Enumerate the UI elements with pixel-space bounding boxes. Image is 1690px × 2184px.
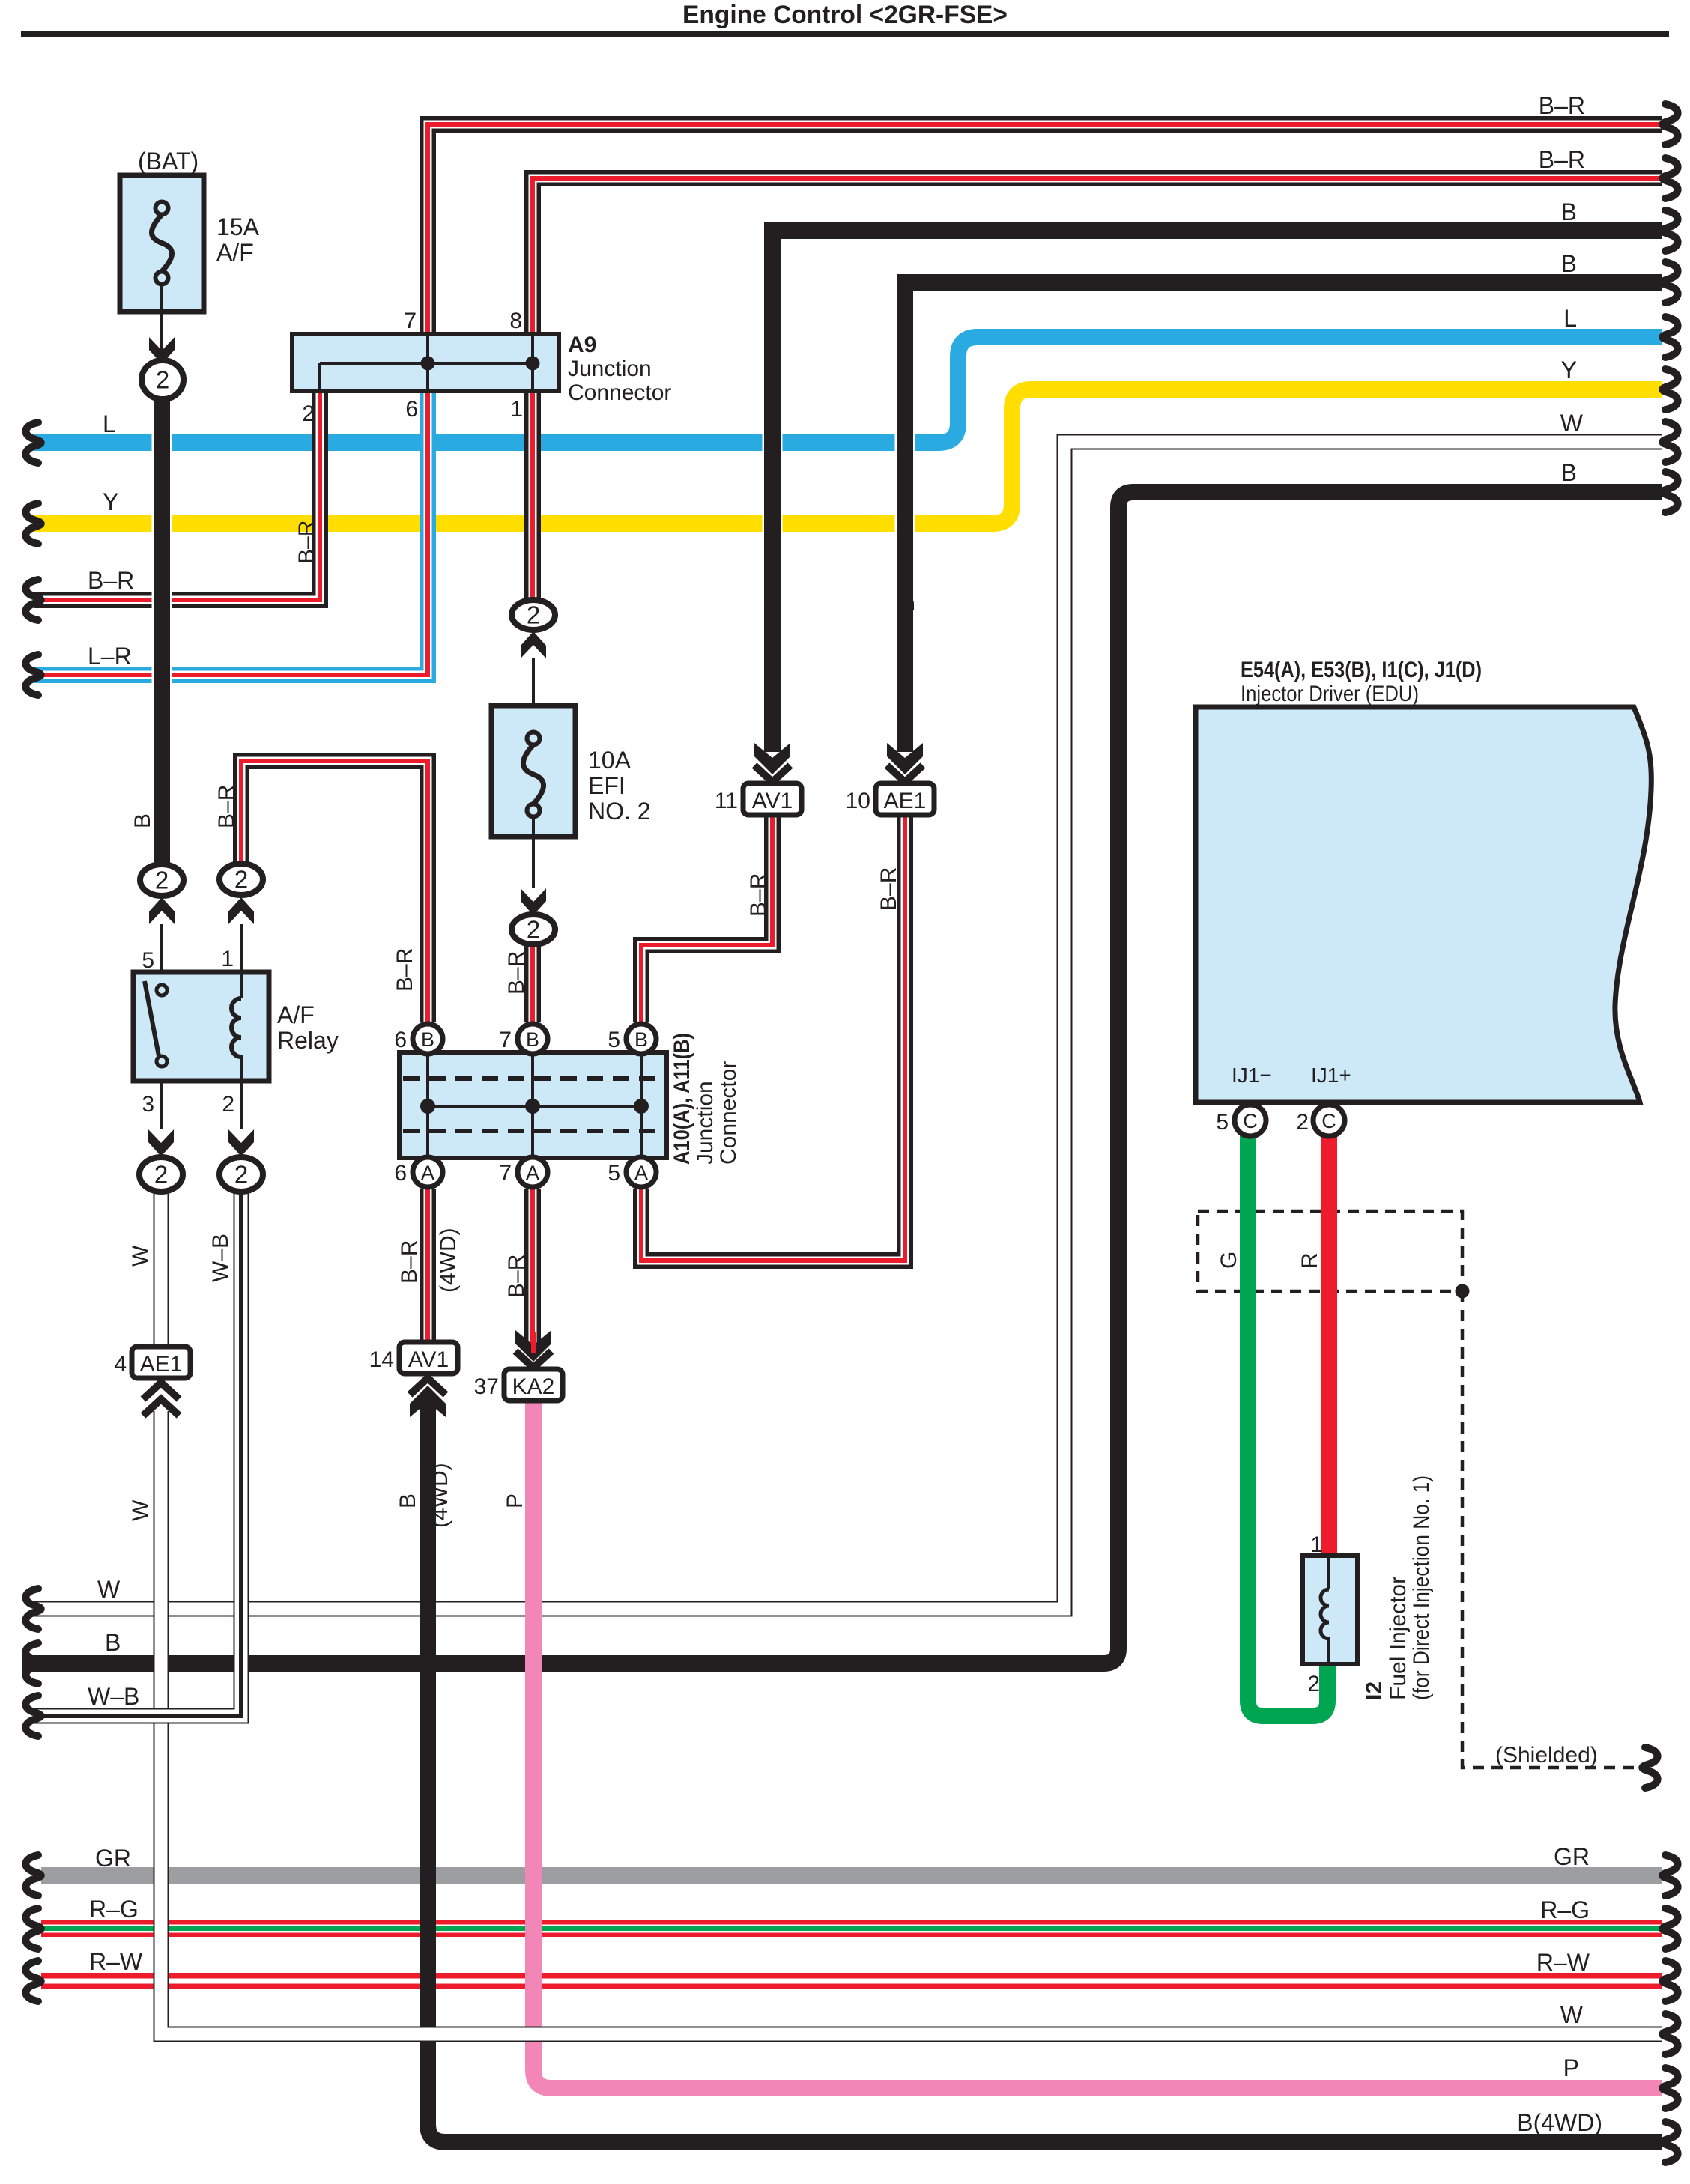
junction connector A9 (292, 333, 671, 405)
svg-text:B: B (396, 1493, 420, 1508)
break squiggle left y=2645 (25, 1961, 40, 2001)
label B-R rotated 6A wire (397, 1240, 422, 1284)
wire B AV1 14 down to B(4WD) line (428, 1402, 1662, 2142)
wire B-R A10 pin 5B to AV1 11 (641, 816, 772, 1022)
svg-text:B–R: B–R (746, 873, 771, 917)
svg-text:11: 11 (715, 789, 738, 813)
svg-text:(4WD): (4WD) (428, 1463, 452, 1528)
junction connector A10(A) A11(B) (399, 1052, 667, 1158)
fuel injector I2 (1303, 1556, 1357, 1664)
svg-text:B–R: B–R (214, 785, 239, 828)
break squiggle left y=591 (25, 422, 40, 463)
wire GR grey line (41, 1867, 1662, 1884)
svg-text:B–R: B–R (876, 867, 901, 911)
svg-text:GR: GR (95, 1845, 131, 1872)
connector AE1 pin 10 (876, 743, 934, 815)
pin 7 label A9 (404, 309, 417, 333)
break squiggle left y=801 (25, 580, 40, 620)
label B-R rotated relay pin1 riser (214, 785, 239, 828)
svg-text:7: 7 (499, 1028, 512, 1052)
title Engine Control <2GR-FSE> (682, 1, 1008, 29)
pin 5 label relay (142, 948, 154, 973)
svg-text:IJ1+: IJ1+ (1311, 1064, 1351, 1087)
label P rotated KA2 lower (503, 1493, 527, 1508)
break squiggle left y=699 (25, 503, 40, 544)
connector 2 above relay pin 5 (140, 864, 184, 896)
pin circle C 2 (IJ1+) (1313, 1105, 1345, 1136)
break squiggle left y=2148 (25, 1589, 40, 1629)
wire lead relay pin 3 to connector 2 (148, 1081, 174, 1156)
label B rotated AV1-11 wire (762, 597, 787, 612)
label R-W right (1536, 1949, 1590, 1976)
svg-text:Injector Driver (EDU): Injector Driver (EDU) (1241, 682, 1419, 706)
label B-R right 2 (1539, 146, 1585, 173)
wire R-G line (41, 1920, 1662, 1937)
label W left (97, 1576, 121, 1603)
pin circle 7B (518, 1024, 548, 1054)
break squiggle right y=308 (1662, 210, 1677, 251)
label Y left (103, 488, 118, 515)
svg-text:R–W: R–W (89, 1948, 143, 1975)
label B-R right 1 (1539, 92, 1585, 119)
pin 8 label A9 (509, 309, 522, 333)
pin circle 6A (413, 1157, 443, 1187)
svg-text:B–R: B–R (1539, 146, 1585, 173)
svg-text:10A: 10A (588, 747, 632, 774)
pin 2 label injector (1307, 1672, 1320, 1696)
svg-text:Y: Y (103, 488, 118, 515)
break squiggle left y=2221 (25, 1643, 40, 1684)
svg-text:AE1: AE1 (140, 1352, 183, 1377)
label B right 1 (1561, 198, 1577, 225)
pin 6A label (394, 1161, 407, 1186)
svg-text:AV1: AV1 (752, 789, 793, 813)
svg-text:Engine Control <2GR-FSE>: Engine Control <2GR-FSE> (682, 1, 1008, 29)
label B(4WD) right (1517, 2109, 1602, 2136)
svg-text:P: P (1563, 2054, 1579, 2081)
wire lead relay pin 2 to connector 2 (228, 1081, 254, 1156)
pin 7A label (499, 1161, 512, 1186)
break squiggle left y=901 (25, 655, 40, 695)
svg-text:2: 2 (1307, 1672, 1320, 1696)
label Fuel Injector rotated (1386, 1577, 1411, 1700)
svg-text:B: B (634, 1028, 648, 1051)
connector KA2 pin 37 (504, 1330, 563, 1401)
wire B right line 1 to AV1 11 (772, 231, 1662, 752)
wire B-R right line 2 to A9 pin 8 (533, 178, 1662, 334)
wire W white line right-top to left (34, 442, 1662, 1609)
break squiggle right y=590 (1662, 422, 1677, 462)
svg-text:B: B (1561, 250, 1577, 277)
connector 2 below relay pin 3 (139, 1157, 183, 1192)
svg-text:L: L (103, 410, 116, 437)
label GR left (95, 1845, 131, 1872)
label B rotated fuse wire (130, 813, 155, 828)
svg-text:2: 2 (527, 916, 540, 944)
connector AV1 pin 14 (399, 1342, 458, 1417)
svg-text:R–G: R–G (1540, 1896, 1590, 1923)
svg-text:1: 1 (1310, 1532, 1323, 1557)
pin 6 label A9 (405, 397, 418, 422)
svg-text:A: A (421, 1162, 434, 1184)
break squiggle right y=2575 (1662, 1908, 1677, 1949)
svg-text:1: 1 (510, 397, 523, 422)
label B-R left (88, 567, 134, 594)
wire B-R right line 1 to A9 pin 7 (428, 124, 1662, 334)
pin 3 label relay (142, 1092, 154, 1117)
svg-text:AV1: AV1 (408, 1347, 449, 1372)
break squiggle right y=377 (1662, 262, 1677, 303)
wire B fuse to relay column (152, 398, 172, 866)
break squiggle right y=2645 (1662, 1961, 1677, 2001)
break squiggle right y=450 (1662, 317, 1677, 357)
label B-R rotated 7A wire (504, 1255, 529, 1298)
wire B right line 3 to bottom-left B line (22, 492, 1662, 1663)
wire lead fuse to connector 2 (149, 312, 175, 364)
break squiggle right y=2716 (1662, 2014, 1677, 2054)
wire G EDU IJ1- to injector pin 2 (1248, 1134, 1327, 1716)
pin 10 label (846, 789, 870, 813)
svg-text:R: R (1297, 1252, 1322, 1269)
svg-text:C: C (1243, 1110, 1258, 1132)
pin circle 5A (626, 1157, 656, 1187)
fuse 15A A/F (BAT) (120, 148, 260, 312)
label B-R rotated A9 pin2 riser (294, 521, 319, 564)
wire B-R relay pin 1 up-over to A10 pin 6B (241, 761, 428, 1022)
label (for Direct Injection No. 1) rotated (1409, 1475, 1434, 1700)
pin 5 label EDU (1216, 1110, 1229, 1135)
break squiggle right y=166 (1662, 104, 1677, 145)
svg-text:B: B (762, 597, 787, 612)
break squiggle right y=2788 (1662, 2068, 1677, 2108)
svg-text:B–R: B–R (393, 948, 417, 992)
svg-text:Connector: Connector (568, 380, 671, 405)
wire B-R connector 2 down to A10 pin 7B (524, 944, 541, 1022)
svg-text:B–R: B–R (1539, 92, 1585, 119)
svg-text:B–R: B–R (294, 521, 319, 564)
label W-B rotated pin2 wire (208, 1234, 233, 1282)
wire lead connector to EFI fuse (521, 631, 546, 732)
svg-text:R–G: R–G (89, 1896, 139, 1923)
svg-text:7: 7 (404, 309, 417, 333)
svg-text:W: W (97, 1576, 121, 1603)
svg-text:G: G (1217, 1252, 1241, 1269)
break squiggle left y=2504 (25, 1855, 40, 1896)
shield dashed box and line (1198, 1211, 1648, 1768)
wire L-R left line to A9 pin 6 (34, 391, 428, 675)
connector 2 above EFI fuse (512, 600, 555, 630)
svg-text:EFI: EFI (588, 772, 626, 799)
svg-text:Junction: Junction (693, 1081, 718, 1165)
svg-text:6: 6 (394, 1028, 407, 1052)
label B right 3 (1561, 459, 1577, 486)
break squiggle left y=2575 (25, 1908, 40, 1949)
fuse 10A EFI NO.2 (491, 706, 651, 837)
connector 2 below relay pin 2 (219, 1157, 263, 1192)
wire P KA2 37 down to P line (533, 1400, 1662, 2088)
svg-text:(4WD): (4WD) (436, 1228, 461, 1293)
pin circle 6B (413, 1024, 443, 1054)
svg-text:B–R: B–R (88, 567, 134, 594)
svg-text:GR: GR (1554, 1843, 1590, 1870)
label W-B left (88, 1683, 139, 1710)
svg-text:E54(A), E53(B), I1(C), J1(D): E54(A), E53(B), I1(C), J1(D) (1241, 658, 1482, 682)
svg-text:B: B (130, 813, 155, 828)
connector 2 below 15A fuse (142, 360, 184, 399)
svg-text:5: 5 (608, 1028, 620, 1052)
svg-text:R–W: R–W (1536, 1949, 1590, 1976)
label (4WD) rotated 6A wire (436, 1228, 461, 1293)
label B-R rotated AV1-11 lower (746, 873, 771, 917)
connector 2 above relay pin 1 (219, 864, 263, 895)
label I2 rotated (1362, 1681, 1387, 1700)
relay A/F (133, 972, 339, 1081)
svg-text:6: 6 (394, 1161, 407, 1186)
pin 14 label (369, 1347, 394, 1372)
break squiggle left y=2291 (25, 1696, 40, 1736)
label Y right (1561, 357, 1577, 383)
svg-text:B–R: B–R (504, 951, 529, 995)
label B-R rotated EFI fuse wire (504, 951, 529, 995)
svg-text:W: W (1560, 410, 1584, 437)
wire B right line 2 to AE1 10 (905, 282, 1662, 752)
wire lead EFI fuse to connector 2 (521, 816, 546, 915)
svg-text:L: L (1563, 305, 1577, 332)
svg-text:2: 2 (155, 867, 169, 894)
wire B-R AE1 10 down-left-up to A10 pin 5A (641, 816, 905, 1261)
pin circle 5B (626, 1024, 656, 1054)
svg-text:Junction: Junction (568, 357, 652, 381)
break squiggle right y=520 (1662, 369, 1677, 410)
svg-text:C: C (1321, 1110, 1336, 1132)
label B right 2 (1561, 250, 1577, 277)
svg-text:2: 2 (222, 1092, 234, 1117)
connector AE1 pin 4 (132, 1347, 190, 1416)
svg-text:Fuel Injector: Fuel Injector (1386, 1577, 1411, 1700)
svg-text:2: 2 (527, 601, 540, 629)
svg-text:1: 1 (221, 947, 234, 971)
injector driver EDU box E54(A) E53(B) I1(C) J1(D) (1196, 658, 1651, 1102)
pin circle 7A (518, 1157, 548, 1187)
wire lead relay pin 5 to connector 2 (149, 897, 175, 972)
pin 6B label (394, 1028, 407, 1052)
pin 11 label (715, 789, 738, 813)
pin 2 label EDU (1296, 1110, 1309, 1135)
svg-text:W: W (128, 1499, 153, 1521)
wire B-R A10 pin 7A down to KA2 37 (524, 1189, 541, 1344)
svg-text:5: 5 (1216, 1110, 1229, 1135)
svg-text:2: 2 (302, 401, 315, 426)
svg-text:10: 10 (846, 789, 870, 813)
break squiggle right y=2860 (1662, 2122, 1677, 2162)
pin 7B label (499, 1028, 512, 1052)
svg-text:W–B: W–B (208, 1234, 233, 1282)
svg-text:(for Direct Injection No. 1): (for Direct Injection No. 1) (1409, 1475, 1434, 1700)
svg-text:B–R: B–R (397, 1240, 422, 1284)
label W rotated pin3 wire (128, 1245, 153, 1267)
wire R-W line (41, 1973, 1662, 1989)
svg-text:B(4WD): B(4WD) (1517, 2109, 1602, 2136)
label B left (105, 1629, 121, 1656)
svg-text:Connector: Connector (716, 1061, 741, 1165)
svg-text:B: B (894, 597, 919, 612)
svg-text:B–R: B–R (504, 1255, 529, 1298)
label G rotated (1217, 1252, 1241, 1269)
svg-text:B: B (421, 1028, 434, 1051)
svg-text:W–B: W–B (88, 1683, 139, 1710)
label (4WD) rotated AV1-14 lower (428, 1463, 452, 1528)
svg-text:A/F: A/F (277, 1001, 315, 1028)
svg-text:(BAT): (BAT) (138, 148, 199, 175)
svg-text:5: 5 (142, 948, 154, 973)
wire W AE1 4 down to bottom W line (161, 1411, 1662, 2034)
label W rotated AE1-4 lower (128, 1499, 153, 1521)
label R-W left (89, 1948, 143, 1975)
break squiggle shielded (1642, 1747, 1657, 1788)
label R-G left (89, 1896, 139, 1923)
svg-text:B: B (1561, 459, 1577, 486)
svg-text:14: 14 (369, 1347, 394, 1372)
svg-text:IJ1−: IJ1− (1232, 1064, 1272, 1087)
pin 2 label A9 (302, 401, 315, 426)
wire L blue line (34, 337, 1662, 443)
svg-text:2: 2 (156, 366, 169, 394)
wire B-R A9 pin 1 down to connector 2 (524, 391, 541, 600)
svg-text:2: 2 (234, 866, 248, 894)
connector 2 below EFI fuse (512, 914, 555, 944)
svg-text:A: A (526, 1162, 539, 1184)
svg-text:A/F: A/F (216, 239, 254, 266)
pin 37 label (474, 1374, 499, 1399)
pin 4 label (114, 1352, 127, 1377)
svg-text:5: 5 (608, 1161, 620, 1186)
connector AV1 pin 11 (743, 743, 802, 815)
pin circle C 5 (IJ1-) (1235, 1105, 1266, 1136)
label R rotated (1297, 1252, 1322, 1269)
svg-text:Y: Y (1561, 357, 1577, 383)
pin 5B label (608, 1028, 620, 1052)
svg-text:(Shielded): (Shielded) (1495, 1743, 1598, 1768)
wire W-B relay pin 2 down to left W-B line (34, 1190, 241, 1716)
svg-text:2: 2 (234, 1161, 248, 1189)
label L left (103, 410, 116, 437)
label A10(A), A11(B) (670, 1033, 694, 1165)
svg-text:4: 4 (114, 1352, 127, 1377)
wire R EDU IJ1+ to injector pin 1 (1321, 1134, 1337, 1556)
svg-text:37: 37 (474, 1374, 499, 1399)
svg-text:B: B (526, 1028, 539, 1051)
svg-text:Relay: Relay (277, 1027, 339, 1054)
break squiggle right y=2504 (1662, 1855, 1677, 1896)
wire Y yellow line (34, 389, 1662, 524)
svg-text:2: 2 (1296, 1110, 1309, 1135)
label W right (1560, 410, 1584, 437)
svg-text:A: A (634, 1162, 648, 1184)
svg-text:I2: I2 (1362, 1681, 1387, 1700)
svg-text:W: W (1560, 2001, 1584, 2028)
label P right (1563, 2054, 1579, 2081)
svg-text:B: B (1561, 198, 1577, 225)
wire W relay pin 3 down to AE1 4 (154, 1190, 169, 1347)
break squiggle right y=657 (1662, 472, 1677, 512)
pin 1 label relay (221, 947, 234, 971)
wire B-R left line to A9 pin 2 (34, 391, 320, 600)
label B-R rotated AE1-10 lower (876, 867, 901, 911)
svg-text:B: B (105, 1629, 121, 1656)
pin 1 label A9 (510, 397, 523, 422)
svg-text:AE1: AE1 (884, 789, 927, 813)
wire B-R A10 pin 6A down to AV1 14 (420, 1189, 436, 1342)
label W right bottom (1560, 2001, 1584, 2028)
svg-text:W: W (128, 1245, 153, 1267)
svg-text:KA2: KA2 (512, 1374, 555, 1399)
svg-text:2: 2 (154, 1161, 168, 1189)
pin 2 label relay (222, 1092, 234, 1117)
pin 5A label (608, 1161, 620, 1186)
label B rotated AE1-10 wire (894, 597, 919, 612)
svg-text:8: 8 (509, 309, 522, 333)
label (Shielded) (1495, 1743, 1598, 1768)
svg-text:L–R: L–R (88, 643, 132, 670)
svg-text:P: P (503, 1493, 527, 1508)
svg-text:15A: 15A (216, 213, 260, 240)
label L-R left (88, 643, 132, 670)
label B rotated AV1-14 lower (396, 1493, 420, 1508)
label GR right (1554, 1843, 1590, 1870)
svg-text:A9: A9 (568, 333, 596, 357)
pin 1 label injector (1310, 1532, 1323, 1557)
label L right (1563, 305, 1577, 332)
svg-text:7: 7 (499, 1161, 512, 1186)
svg-text:6: 6 (405, 397, 418, 422)
title rule (21, 31, 1669, 37)
svg-text:3: 3 (142, 1092, 154, 1117)
break squiggle right y=238 (1662, 158, 1677, 198)
wire lead relay pin 1 to connector 2 (228, 897, 254, 972)
svg-text:A10(A), A11(B): A10(A), A11(B) (670, 1033, 694, 1165)
label Junction Connector rotated (693, 1061, 741, 1165)
label R-G right (1540, 1896, 1590, 1923)
svg-text:NO. 2: NO. 2 (588, 798, 651, 825)
label B-R rotated 6B riser (393, 948, 417, 992)
